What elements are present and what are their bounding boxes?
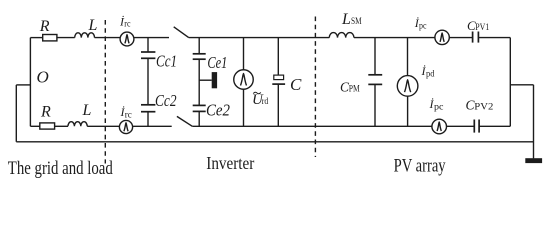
wire bottom rail R to L bbox=[55, 125, 68, 127]
wire midpoint stub bbox=[199, 79, 212, 81]
wire right vertical bbox=[509, 38, 511, 127]
wire top rail LSM to Ipc bbox=[354, 37, 435, 39]
svg-text:C: C bbox=[290, 75, 302, 94]
ground bbox=[525, 158, 542, 163]
svg-text:Ce2: Ce2 bbox=[206, 100, 230, 119]
capacitor Ce2 bbox=[193, 105, 206, 111]
svg-text:PV1: PV1 bbox=[475, 22, 489, 32]
wire bottom rail L to Irc bbox=[87, 125, 119, 127]
wire top rail CPV1 to right vertical bbox=[478, 37, 510, 39]
svg-text:Cc1: Cc1 bbox=[156, 51, 177, 70]
wire C branch upper bbox=[277, 38, 279, 76]
current source Ipc (bottom) bbox=[432, 119, 447, 134]
capacitor Cc1 bbox=[141, 52, 155, 58]
svg-text:PV array: PV array bbox=[394, 155, 446, 176]
wire Urd branch upper bbox=[243, 38, 245, 70]
wire outer right vertical bbox=[533, 85, 535, 159]
switch S1 (top) bbox=[174, 27, 189, 38]
wire Cc branch middle bbox=[147, 58, 149, 105]
wire Ce branch upper bbox=[198, 38, 200, 54]
svg-text:PM: PM bbox=[349, 84, 360, 94]
wire Ce branch middle bbox=[198, 59, 200, 105]
wire right tap bbox=[510, 84, 533, 86]
switch S2 (bottom) bbox=[177, 116, 192, 126]
wire left vertical bbox=[29, 38, 31, 127]
wire bottom rail to R bbox=[30, 125, 39, 127]
wire Cc branch upper bbox=[147, 38, 149, 52]
wire bottom rail Irc to switch bbox=[133, 125, 172, 127]
svg-text:Ce1: Ce1 bbox=[207, 53, 227, 72]
current source Irc (top) bbox=[120, 32, 134, 46]
wire CPM branch upper bbox=[374, 38, 376, 75]
svg-text:L: L bbox=[82, 102, 92, 119]
svg-text:Cc2: Cc2 bbox=[155, 91, 177, 110]
svg-text:L: L bbox=[341, 11, 351, 28]
inductor LSM bbox=[329, 33, 354, 38]
svg-text:L: L bbox=[88, 17, 98, 34]
dashed separator inverter/PV bbox=[314, 17, 316, 158]
wire top rail to R bbox=[30, 37, 42, 39]
capacitor CPV2 bbox=[474, 120, 479, 133]
wire top rail switch to LSM bbox=[189, 37, 330, 39]
wire Cc branch lower bbox=[147, 112, 149, 127]
svg-text:Inverter: Inverter bbox=[206, 153, 254, 173]
wire bottom rail CPV2 to right vertical bbox=[479, 125, 510, 127]
wire top rail R to L bbox=[57, 37, 75, 39]
svg-text:rc: rc bbox=[125, 110, 132, 120]
current source Irc (bottom) bbox=[119, 120, 132, 133]
wire Ipd branch lower bbox=[407, 96, 409, 126]
wire C branch lower bbox=[277, 84, 279, 126]
svg-text:SM: SM bbox=[351, 17, 362, 27]
svg-text:pd: pd bbox=[426, 70, 435, 80]
inductor L (grid, bottom) bbox=[68, 122, 87, 127]
capacitor C (box plate + line) bbox=[274, 75, 284, 80]
voltage source Urd bbox=[234, 70, 254, 90]
svg-text:rd: rd bbox=[262, 97, 269, 107]
wire CPM branch lower bbox=[374, 84, 376, 126]
wire top rail Ipc to CPV1 bbox=[449, 37, 472, 39]
wire top rail L to Irc bbox=[95, 37, 121, 39]
wire top rail Irc to switch bbox=[134, 37, 169, 39]
node O stub wire bbox=[16, 84, 30, 86]
inductor L (grid, top) bbox=[75, 33, 95, 38]
wire outer bottom rail bbox=[16, 141, 533, 143]
capacitor CPM bbox=[368, 75, 382, 85]
svg-text:O: O bbox=[37, 68, 49, 87]
svg-text:rc: rc bbox=[124, 20, 130, 30]
resistor R (grid, top) bbox=[43, 35, 57, 41]
resistor R (grid, bottom) bbox=[40, 123, 55, 129]
svg-text:pc: pc bbox=[419, 21, 427, 31]
capacitor CPV1 bbox=[473, 32, 479, 43]
svg-text:R: R bbox=[40, 104, 51, 121]
current source Ipc (top) bbox=[435, 30, 449, 44]
svg-text:PV2: PV2 bbox=[474, 102, 493, 112]
current source Ipd bbox=[397, 76, 418, 97]
dashed separator grid/inverter bbox=[104, 20, 106, 164]
svg-text:The grid and load: The grid and load bbox=[8, 158, 113, 179]
wire Ipd branch upper bbox=[407, 38, 409, 76]
wire outer left vertical bbox=[15, 85, 17, 142]
capacitor Ce1 bbox=[193, 54, 206, 59]
connector bar (solid plate) bbox=[212, 72, 217, 88]
wire bottom rail switch to Ipc bbox=[192, 125, 432, 127]
svg-text:R: R bbox=[39, 18, 50, 35]
svg-text:pc: pc bbox=[434, 103, 444, 113]
wire bottom rail Ipc to CPV2 bbox=[447, 125, 475, 127]
wire Ce branch lower bbox=[198, 111, 200, 126]
capacitor Cc2 bbox=[141, 105, 155, 112]
wire Urd branch lower bbox=[243, 89, 245, 126]
